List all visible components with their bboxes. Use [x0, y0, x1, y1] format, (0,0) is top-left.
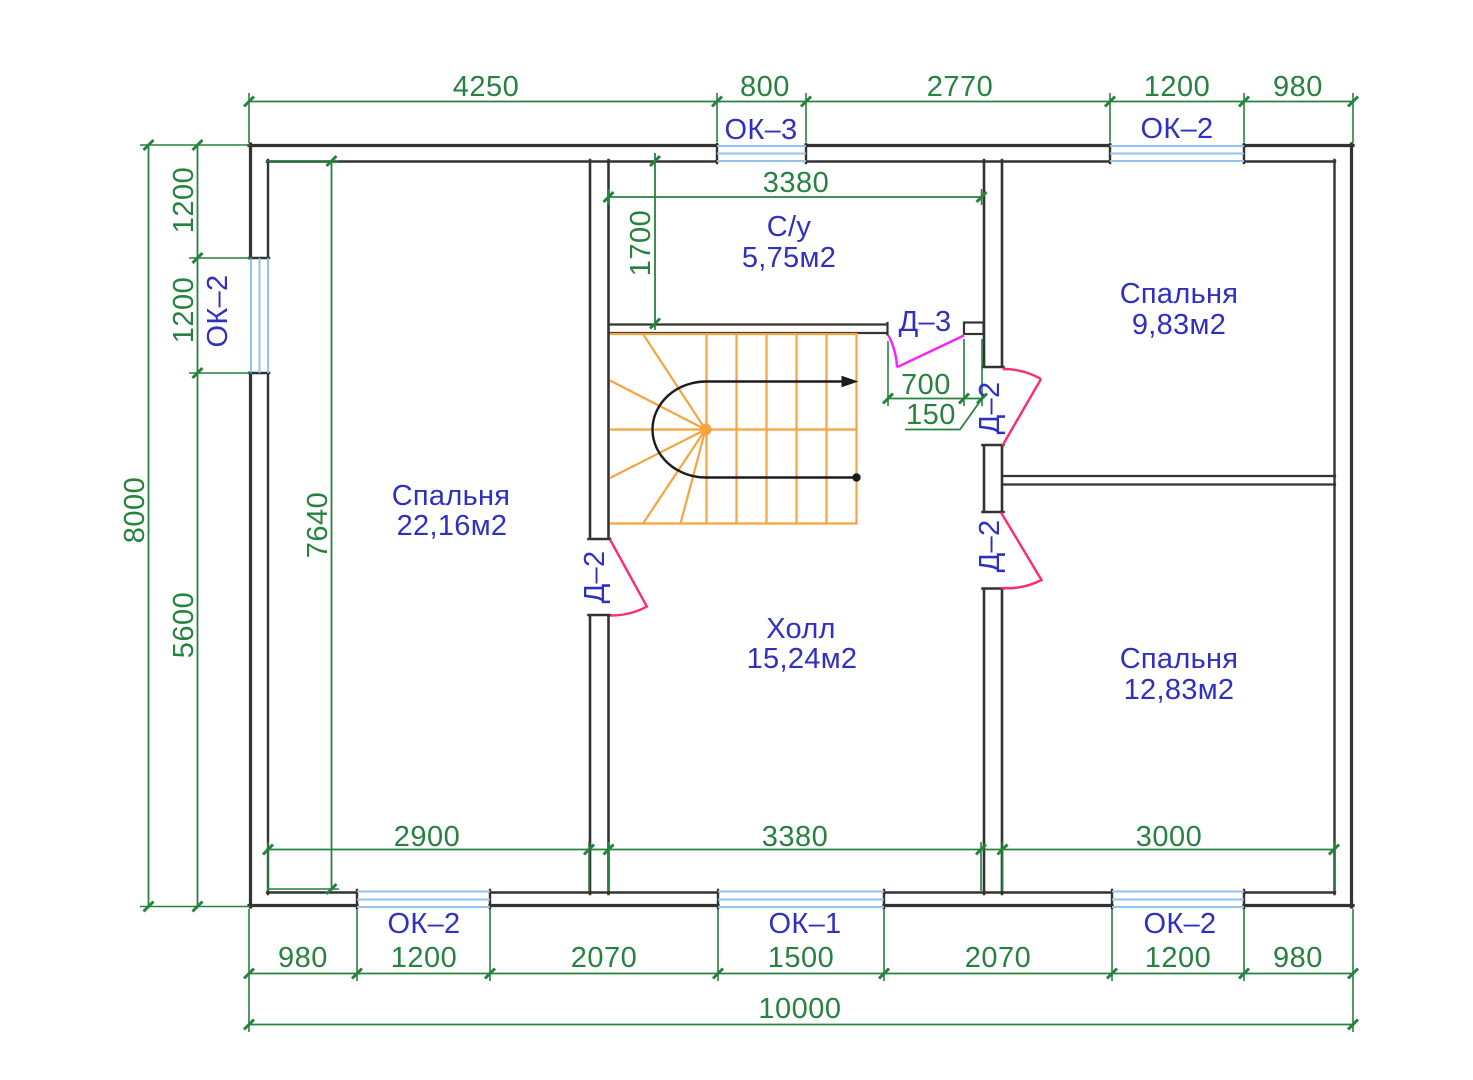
dim leader 150	[905, 400, 981, 430]
window OK-2 bottom wall right	[1112, 892, 1244, 908]
svg-text:Спальня: Спальня	[1120, 643, 1239, 675]
interior wall W3 middle segment	[983, 445, 1004, 512]
walls	[249, 144, 1353, 908]
svg-text:Д–2: Д–2	[974, 382, 1006, 435]
bedroom divider wall W4	[1003, 476, 1335, 485]
svg-text:2900: 2900	[394, 821, 461, 853]
witness 700/150	[888, 339, 982, 406]
witness left rows	[140, 145, 252, 907]
svg-text:12,83м2: 12,83м2	[1124, 674, 1235, 706]
svg-text:2070: 2070	[965, 942, 1032, 974]
svg-text:ОК–2: ОК–2	[202, 275, 234, 348]
svg-text:2070: 2070	[571, 942, 638, 974]
svg-text:5600: 5600	[168, 592, 200, 659]
window OK-2 left wall	[251, 258, 268, 373]
svg-text:3380: 3380	[762, 821, 829, 853]
svg-text:4250: 4250	[453, 71, 520, 103]
outer wall top inner line	[267, 160, 1335, 162]
svg-text:800: 800	[740, 71, 790, 103]
svg-text:980: 980	[278, 942, 328, 974]
windows	[251, 146, 1244, 907]
dimension ticks	[144, 97, 1359, 1030]
svg-text:ОК–2: ОК–2	[1144, 908, 1217, 940]
outer wall right inner line	[1333, 160, 1335, 894]
witness lines	[140, 93, 1353, 1032]
witness 7640	[267, 161, 339, 889]
bathroom south wall W2	[609, 323, 888, 335]
svg-text:7640: 7640	[302, 492, 334, 559]
dim line left 8000	[148, 145, 150, 907]
interior wall W3 lower segment	[983, 589, 1004, 895]
stair middle tread line	[610, 428, 857, 430]
dimension lines	[149, 102, 1354, 1025]
witness top row	[249, 93, 1353, 143]
outer wall top outer line	[249, 144, 1353, 147]
svg-text:Холл: Холл	[766, 613, 836, 645]
svg-text:С/у: С/у	[767, 211, 812, 243]
svg-text:980: 980	[1273, 71, 1323, 103]
window jamb caps left wall	[249, 258, 269, 373]
svg-text:1200: 1200	[1144, 71, 1211, 103]
svg-text:2770: 2770	[927, 71, 994, 103]
svg-text:Д–2: Д–2	[974, 520, 1006, 573]
svg-text:700: 700	[901, 369, 951, 401]
svg-text:8000: 8000	[119, 477, 151, 544]
stair winder center dot	[700, 424, 712, 436]
dim line top row	[249, 101, 1353, 103]
svg-text:15,24м2: 15,24м2	[747, 643, 858, 675]
svg-text:9,83м2: 9,83м2	[1132, 309, 1226, 341]
dim line 10000	[249, 1024, 1353, 1026]
svg-text:ОК–2: ОК–2	[1141, 113, 1214, 145]
witness 3380 bathroom	[609, 189, 982, 205]
window OK-2 bottom wall left	[357, 892, 490, 908]
svg-text:980: 980	[1273, 942, 1323, 974]
window OK-1 bottom wall center	[718, 892, 884, 908]
svg-text:1200: 1200	[168, 277, 200, 344]
svg-text:3380: 3380	[763, 167, 830, 199]
svg-text:Спальня: Спальня	[392, 480, 511, 512]
door D-2 right upper leaf and arc	[1003, 369, 1042, 446]
svg-text:3000: 3000	[1136, 821, 1203, 853]
outer wall left inner line	[267, 160, 269, 894]
dim line 1700	[654, 153, 656, 330]
svg-text:1500: 1500	[768, 942, 835, 974]
dim line interior bottom row	[266, 849, 1334, 851]
dim line 3380 bathroom	[609, 196, 982, 198]
interior wall W3 upper segment	[983, 160, 1004, 367]
dim line 7640	[331, 161, 333, 889]
svg-text:ОК–2: ОК–2	[388, 908, 461, 940]
interior wall W1 upper segment	[589, 160, 611, 539]
dim line 700/150	[888, 398, 982, 400]
svg-text:150: 150	[906, 399, 956, 431]
witness bottom outer row	[249, 909, 1353, 1032]
door D-3 leaf and arc	[889, 336, 965, 368]
svg-text:ОК–1: ОК–1	[769, 908, 842, 940]
interior wall W1 lower segment	[589, 615, 611, 894]
svg-text:22,16м2: 22,16м2	[397, 510, 508, 542]
svg-text:1200: 1200	[168, 167, 200, 234]
stair direction arrow	[653, 382, 857, 478]
door D-2 right lower leaf and arc	[1001, 513, 1042, 589]
outer wall bottom outer line	[249, 904, 1353, 907]
svg-text:Д–3: Д–3	[899, 306, 952, 338]
outer wall right outer line	[1350, 144, 1353, 907]
svg-text:ОК–3: ОК–3	[725, 114, 798, 146]
svg-text:5,75м2: 5,75м2	[742, 242, 836, 274]
svg-text:Д–2: Д–2	[579, 551, 611, 604]
stair treads vertical	[707, 334, 827, 524]
svg-text:1200: 1200	[391, 942, 458, 974]
witness interior bottom row	[268, 842, 1334, 891]
svg-text:1200: 1200	[1145, 942, 1212, 974]
stair boundary	[610, 334, 857, 524]
stair winder rays	[610, 334, 706, 524]
svg-text:Спальня: Спальня	[1120, 278, 1239, 310]
dim line left 1200/1200/5600	[197, 145, 199, 907]
window jamb caps top wall	[717, 144, 1244, 163]
window OK-3 top wall	[717, 146, 806, 161]
dim line bottom outer row	[249, 973, 1353, 975]
svg-text:1700: 1700	[625, 210, 657, 277]
svg-text:10000: 10000	[758, 993, 841, 1025]
door D-2 left leaf and arc	[610, 369, 1042, 616]
stair arrow start dot	[852, 473, 860, 481]
window OK-2 top wall right	[1110, 146, 1244, 161]
window jamb caps bottom wall	[357, 890, 1244, 908]
outer wall left outer line	[249, 144, 252, 907]
outer wall bottom inner line	[267, 891, 1335, 893]
stair arrow head	[842, 376, 859, 388]
stairs	[610, 334, 857, 524]
wall pier 150	[964, 323, 984, 335]
